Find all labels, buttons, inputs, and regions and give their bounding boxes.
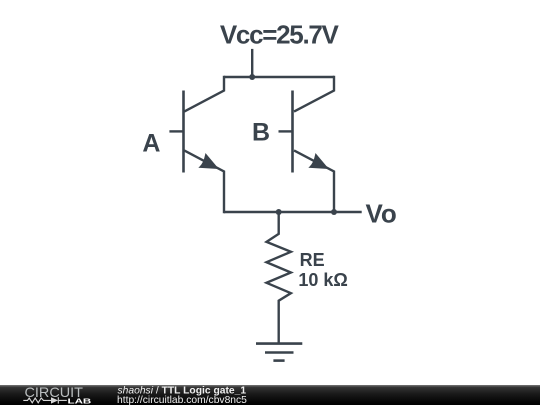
svg-text:RE: RE [300, 250, 325, 270]
svg-text:http://circuitlab.com/cbv8nc5: http://circuitlab.com/cbv8nc5 [117, 394, 247, 405]
svg-text:Vo: Vo [366, 199, 397, 229]
svg-text:B: B [252, 118, 270, 146]
svg-text:10 kΩ: 10 kΩ [298, 270, 347, 290]
svg-text:Vcc=25.7V: Vcc=25.7V [220, 19, 340, 49]
svg-text:A: A [142, 129, 160, 157]
svg-text:LAB: LAB [68, 396, 93, 405]
